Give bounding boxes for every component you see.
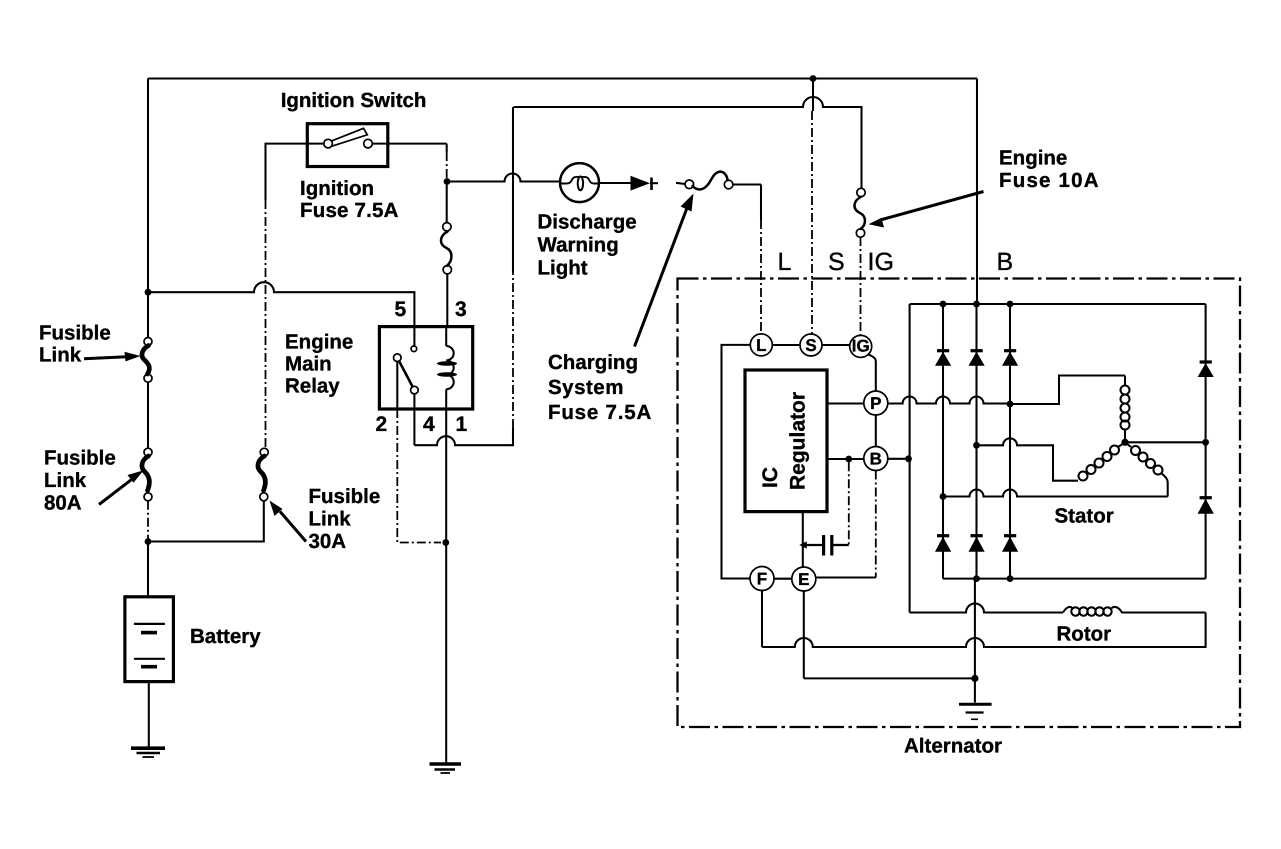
svg-text:1: 1 [456, 413, 468, 436]
svg-text:Fuse 7.5A: Fuse 7.5A [548, 401, 652, 424]
svg-text:Ignition: Ignition [300, 177, 374, 200]
svg-text:IG: IG [852, 337, 870, 356]
svg-text:P: P [870, 394, 881, 413]
svg-text:Regulator: Regulator [787, 392, 810, 490]
svg-text:IC: IC [759, 467, 782, 488]
svg-text:IG: IG [868, 248, 894, 276]
svg-text:30A: 30A [309, 530, 347, 553]
svg-text:Fusible: Fusible [39, 322, 111, 345]
svg-text:Main: Main [285, 353, 332, 376]
svg-text:Fusible: Fusible [309, 485, 381, 508]
svg-text:System: System [548, 376, 624, 399]
svg-text:Fuse 10A: Fuse 10A [999, 169, 1100, 192]
svg-text:Warning: Warning [538, 234, 619, 257]
svg-text:S: S [805, 336, 816, 355]
svg-text:E: E [798, 570, 809, 589]
svg-text:4: 4 [423, 413, 435, 436]
svg-text:5: 5 [395, 298, 407, 321]
svg-text:B: B [997, 248, 1014, 276]
svg-text:2: 2 [376, 413, 388, 436]
svg-text:Fusible: Fusible [44, 447, 116, 470]
svg-text:F: F [757, 570, 767, 589]
svg-text:Charging: Charging [548, 351, 638, 374]
svg-text:80A: 80A [44, 492, 82, 515]
svg-text:Ignition Switch: Ignition Switch [281, 89, 427, 112]
svg-text:Discharge: Discharge [538, 211, 637, 234]
svg-text:Light: Light [538, 257, 588, 280]
svg-text:Link: Link [309, 508, 352, 531]
svg-text:Fuse 7.5A: Fuse 7.5A [300, 199, 399, 222]
svg-text:B: B [870, 450, 882, 469]
svg-text:L: L [778, 248, 792, 276]
svg-text:Stator: Stator [1055, 505, 1114, 528]
svg-text:Link: Link [44, 469, 87, 492]
svg-text:Link: Link [39, 344, 82, 367]
svg-text:Engine: Engine [999, 147, 1067, 170]
svg-text:Alternator: Alternator [904, 735, 1002, 758]
svg-text:S: S [828, 248, 845, 276]
svg-text:Rotor: Rotor [1057, 623, 1112, 646]
svg-text:Battery: Battery [190, 625, 261, 648]
svg-text:3: 3 [455, 298, 467, 321]
svg-text:Relay: Relay [285, 375, 340, 398]
svg-text:L: L [756, 336, 766, 355]
svg-text:Engine: Engine [285, 331, 353, 354]
